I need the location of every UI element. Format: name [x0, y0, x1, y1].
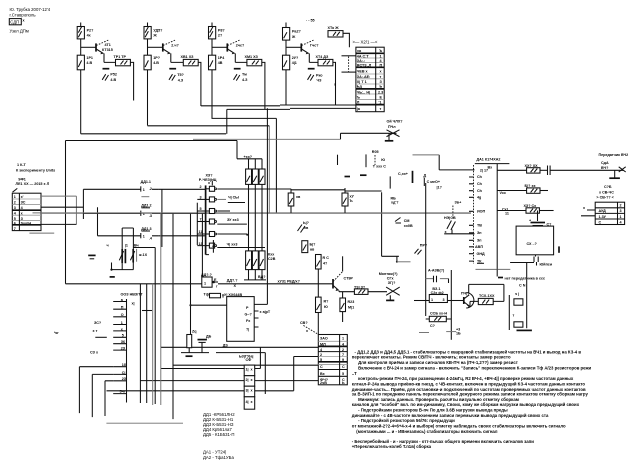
wire: U1 left pin1 [161, 368, 244, 370]
svg-text:1Р?: 1Р? [153, 56, 161, 60]
svg-text:- Подстройками резисторов В-пч: - Подстройками резисторов В-пч По для 3.… [358, 408, 508, 413]
svg-text:11: 11 [199, 230, 203, 234]
wire: base of VT1 [81, 46, 96, 48]
wire: DA2 right pin stubs [254, 304, 267, 327]
svg-text:ЧЗ: ЧЗ [317, 79, 323, 83]
label R near frame corner [391, 196, 400, 204]
svg-text:ТВ: ТВ [477, 224, 482, 228]
wire: long gray vertical x152.7 [152, 284, 154, 405]
svg-text:G~?: G~? [245, 313, 253, 317]
wire: gray line y139.3 to RX antenna [193, 138, 341, 140]
svg-text:2| 17: 2| 17 [480, 168, 488, 172]
svg-text:т: т [380, 75, 382, 79]
component Tf.a near DA2 [204, 292, 226, 298]
wire: base of VT2 [148, 46, 163, 48]
svg-text:1: 1 [143, 235, 145, 239]
svg-text:О: О [121, 313, 124, 317]
gate DD1.3 [135, 227, 159, 241]
title text block top-left [9, 7, 50, 34]
box Cx filter [516, 226, 554, 255]
svg-text:СФ: СФ [246, 358, 253, 362]
wire: thick vertical x451.3 [450, 270, 452, 340]
svg-text:СТ9Р: СТ9Р [344, 277, 354, 281]
wire: R30 stubs [342, 292, 344, 322]
wire: emitter drop cell1 [104, 53, 116, 62]
wire: cell2 vertical rail [147, 23, 149, 126]
wire: X1 shield gray edge [75, 196, 77, 224]
wire: gray vertical x160.8 lower [160, 347, 162, 405]
capacitor C5 slashes cell2 [169, 73, 185, 82]
svg-text:2?: 2? [218, 34, 223, 38]
svg-text:Ж: Ж [152, 34, 157, 38]
resistor R22 slashes [444, 216, 456, 234]
crystal ZQ2 cluster [181, 329, 212, 356]
resistor R25 [525, 184, 549, 193]
wire: DA1 out row2 [497, 190, 526, 192]
notes text block [352, 350, 592, 450]
inductor L4 cell4 [316, 55, 333, 66]
wire: DD2 top pin stub [211, 181, 213, 186]
label R05 group [372, 150, 386, 169]
wire: long middle vertical x267.4 [266, 108, 268, 304]
wire: U1 right pin3 over and up [255, 357, 294, 391]
wire: cell2 bus y125.8 [148, 125, 270, 127]
wire: VT5 collector up [342, 256, 344, 271]
wire: DD3 pin stubs left [113, 302, 126, 394]
wire: emitter drop cell3 [235, 53, 247, 62]
parts list DA1-DA2 [203, 450, 234, 460]
svg-text:МЛ: МЛ [320, 342, 326, 346]
svg-text:9: 9 [342, 358, 344, 362]
svg-text:ВД?: ВД? [258, 275, 266, 279]
resistor R11 [283, 28, 302, 41]
svg-text:ЗС?: ЗС? [94, 321, 102, 325]
inductor L3 cell3 [245, 55, 262, 66]
svg-text:Т5?: Т5? [177, 73, 184, 77]
svg-text:НЭ|СВ: НЭ|СВ [444, 216, 456, 220]
resistor R21 mid right [342, 193, 355, 206]
wire: bus1 y105.6 [201, 104, 356, 107]
svg-text:Зп: Зп [477, 231, 482, 235]
svg-text:6: 6 [14, 221, 16, 225]
svg-text:Ч| хх3: Ч| хх3 [227, 242, 238, 246]
svg-text:Ю: Ю [381, 158, 385, 162]
svg-text:· - 55: · - 55 [306, 19, 315, 23]
gate DD2.6 [197, 242, 216, 255]
wire: right frame vertical x381.6 [381, 192, 383, 256]
svg-text:за В-ЗИП-1 по переднюю панель: за В-ЗИП-1 по переднюю панель переключат… [352, 392, 589, 397]
svg-text:ХМ1 ХЗ: ХМ1 ХЗ [245, 55, 259, 59]
capacitor plate cell4 [308, 68, 315, 70]
wire: DD1.2 out to DD2 [159, 212, 206, 214]
svg-text:- Подстройкой резисторов 56/76: - Подстройкой резисторов 56/76: предыдущ… [358, 418, 455, 423]
diode VD box near X2 [328, 26, 344, 37]
gate DD2.2 [197, 196, 216, 202]
svg-text:контроль-режим ПЧ-24, при разм: контроль-режим ПЧ-24, при размещении 4-2… [358, 376, 574, 381]
svg-text:*кг: *кг [54, 331, 59, 335]
svg-text:ДБ: ДБ [206, 335, 212, 339]
svg-text:ЗАО: ЗАО [320, 337, 328, 341]
capacitor bar x337.5 [337, 155, 339, 165]
svg-text:Ой ЧЛХ?: Ой ЧЛХ? [387, 120, 404, 124]
svg-text:Сh: Сh [477, 182, 483, 186]
svg-text:4|1: 4|1 [292, 61, 297, 65]
wire: x318.3 vertical through TX [317, 269, 319, 297]
antenna WA2 far right [606, 167, 626, 178]
resistor R6 cell2 [144, 55, 161, 70]
svg-text:..Т: ..Т [352, 371, 357, 376]
svg-text:ДД?.?: ДД?.? [201, 273, 213, 277]
svg-text:1б: 1б [122, 363, 127, 367]
svg-text:5: 5 [200, 207, 202, 211]
resistor pack lower R17 [252, 251, 258, 270]
wire: vertical x161.9 [161, 189, 163, 247]
wire: DD1.3 out to DD2 [159, 235, 206, 237]
svg-text:4.В: 4.В [110, 78, 116, 82]
svg-text:ДА1 К174ХА2: ДА1 К174ХА2 [477, 157, 501, 161]
svg-text:С?Б: С?Б [604, 185, 612, 189]
wire: DD2 out1 long [217, 189, 381, 192]
svg-text:2чВ: 2чВ [320, 381, 327, 385]
svg-text:Л: Л [357, 100, 360, 104]
label С меО+ [424, 178, 442, 190]
svg-text:от монтажной-2?2-4=6+4-х-4 и в: от монтажной-2?2-4=6+4-х-4 и выборе| отм… [352, 423, 566, 428]
wire: input to DD1.2 [83, 212, 135, 214]
transistor VT4 [301, 40, 319, 54]
svg-text:2|: 2| [246, 378, 249, 382]
svg-text:переключает контакты. Режим СВ: переключает контакты. Режим СВ/ПЧ - вклю… [352, 355, 511, 360]
svg-text:Ч| СЫ: Ч| СЫ [228, 196, 239, 200]
wire: cell4 vertical rail [285, 23, 287, 105]
svg-text:хх0В: хх0В [404, 224, 413, 228]
svg-text:Т ххх С: Т ххх С [373, 165, 386, 169]
svg-text:ЗУ хх3: ЗУ хх3 [227, 218, 239, 222]
gate DD2.1 [200, 185, 217, 191]
labels +3 1Б [446, 328, 461, 336]
svg-text:.3: .3 [149, 214, 152, 218]
svg-text:2З: 2З [121, 347, 126, 351]
wire: cell3 L out down to bus [262, 62, 265, 109]
wire: vertical link x226.8 [226, 109, 228, 133]
wire: R21 stubs [344, 188, 346, 213]
resistor pack upper R14 [252, 169, 258, 184]
optocoupler U1 cell1 [244, 365, 255, 376]
wire: input to DD1.1 [83, 188, 135, 190]
wire: emitter drop cell2 [171, 53, 184, 62]
wire: vertical x190.5 to DA2 [190, 213, 192, 335]
gate DD2.5 [197, 230, 216, 236]
connector X1 table [12, 193, 41, 231]
gate DD1.2 [135, 204, 159, 218]
wire: corner into DA1 input [439, 155, 474, 170]
svg-text:УД5?: УД5? [153, 28, 163, 32]
wire: DD2 left pin bus [196, 203, 198, 245]
wire: DD3 wrap wire C [105, 381, 113, 416]
wire: long gray line y213 across [33, 212, 472, 214]
wire: table feed y365.2 [173, 364, 318, 366]
svg-text:5: 5 [342, 372, 344, 376]
svg-text:1: 1 [143, 188, 145, 192]
wire: gray bottom of Cx [510, 262, 534, 264]
label ЗВ+ and dashed drop [453, 201, 461, 219]
resistor R3 cell1 [77, 55, 93, 70]
svg-text:Монтаж(?): Монтаж(?) [379, 272, 399, 276]
wire: branch x83.4 down [82, 189, 84, 219]
wire: feeds to resistor pack [249, 159, 263, 169]
wire: cell2 L out down to bus [198, 62, 201, 106]
svg-text:С меО+: С меО+ [427, 180, 441, 184]
wire: DD2 out2 with net label [217, 196, 245, 203]
wire: diode to X2 top [343, 33, 349, 47]
wire: X1 row1 gray out [41, 195, 76, 197]
wire: DD2 out6 with net label [217, 242, 265, 247]
IC DD2 body rail [205, 185, 207, 254]
wire: R24 to cap [540, 169, 547, 171]
svg-text:2: 2 [342, 348, 344, 352]
svg-text:ЛЕ1 ХХ — 2015 х Л: ЛЕ1 ХХ — 2015 х Л [16, 182, 50, 186]
svg-text:|1?: |1? [437, 186, 443, 190]
wire: B3.1 left stub [414, 300, 429, 302]
wire: into DA1 pin row [444, 233, 474, 235]
svg-text:ч |: ч | [515, 292, 519, 296]
svg-text:Ю: Ю [324, 305, 328, 309]
resistor R5 [144, 27, 163, 39]
resistor R19 drop from DD2 out1 [288, 189, 301, 213]
capacitor plate mark b [360, 174, 367, 176]
svg-text:С N: С N [519, 284, 526, 288]
svg-text:Х| Т 1: Х| Т 1 [357, 80, 367, 84]
svg-text:7: 7 [14, 227, 16, 231]
wire: vertical x155.2 [133, 248, 155, 405]
svg-text:1.3У: 1.3У [599, 215, 607, 219]
gate DD2.3 [197, 207, 216, 213]
svg-text:С: С [599, 220, 602, 224]
svg-text:Zq: Zq [192, 329, 197, 333]
gate DD1.1 [135, 180, 159, 197]
wire: DA2 left input [191, 304, 227, 306]
svg-text:С2В: С2В [268, 257, 276, 261]
svg-text:Узел ДПм: Узел ДПм [10, 29, 29, 34]
resistor R8 [209, 27, 226, 39]
svg-text:А-АЗВ(?): А-АЗВ(?) [428, 269, 445, 273]
svg-text:каналов для "особой" вкл. по и: каналов для "особой" вкл. по им-динамику… [352, 402, 580, 407]
svg-text:ЯСТЗ..Л: ЯСТЗ..Л [357, 64, 372, 68]
capacitor C8 slashes cell3 [234, 73, 249, 82]
leader label СВ to table [300, 321, 317, 334]
antenna WA3 transmitter out [379, 272, 400, 300]
wire: U1 left pin3 [107, 390, 245, 392]
note text under DA1 [498, 276, 545, 280]
svg-text:4.В: 4.В [86, 61, 92, 65]
wire: bus3 y118.4 [212, 117, 277, 119]
svg-text:т: т [380, 107, 382, 111]
svg-text:З6: З6 [121, 340, 125, 344]
svg-text:?|: ?| [246, 328, 249, 332]
svg-text:3: 3 [620, 209, 622, 213]
wire: table feed y380.6 [140, 380, 318, 382]
capacitor C with + label [398, 171, 413, 183]
wire: cell1 L out down to bus [130, 62, 133, 100]
svg-text:1Р4: 1Р4 [218, 56, 226, 60]
capacitor C26 polarized [529, 211, 552, 227]
wire: long vertical x140.4 [139, 284, 141, 403]
capacitor C30 [426, 276, 449, 283]
svg-text:4.З: 4.З [242, 78, 248, 82]
wire: X2 pin stub upper [342, 55, 356, 57]
svg-text:КТ315: КТ315 [102, 48, 113, 52]
svg-text:4?: 4? [323, 262, 328, 266]
svg-text:хв: хв [304, 226, 309, 230]
wire: gray drop x269.3 [268, 126, 270, 213]
component ladder right x509-532 [509, 263, 532, 331]
svg-text:ЧЕВ х: ЧЕВ х [357, 70, 369, 74]
svg-text:ПЧл: ПЧл [388, 125, 396, 129]
wire: X1 row5 gray long out [41, 212, 471, 214]
capacitor plate cell3 [234, 68, 241, 70]
wire: pack columns verticals [249, 184, 263, 251]
svg-text:СМ: СМ [404, 219, 410, 223]
wire: gray stub right of junction [397, 261, 411, 263]
svg-text:Ьд: Ьд [357, 85, 363, 89]
svg-text:Гчс?: Гчс? [310, 43, 319, 47]
wire: R29 down into table corner [317, 313, 319, 335]
wire: vertical x202.4 [201, 213, 203, 277]
svg-text:ЗГ|?: ЗГ|? [388, 281, 396, 285]
wire: VT5 emitter node [339, 290, 354, 291]
resistor R12 cell4 [283, 55, 300, 70]
svg-text:хд'?: хд'? [391, 201, 399, 205]
wire: to TX antenna [368, 291, 387, 293]
svg-text:> СВ-?? <: > СВ-?? < [596, 196, 613, 200]
svg-text:х а|рТ: х а|рТ [260, 310, 271, 314]
capacitor bar right of Cx [558, 246, 560, 252]
svg-text:R05: R05 [372, 150, 379, 154]
parts list DD1-DD5 [203, 412, 235, 437]
svg-text:Ж: Ж [291, 35, 296, 39]
resistor R26 [524, 204, 554, 213]
svg-text:К эксперименту Units: К эксперименту Units [16, 168, 55, 172]
svg-text:Сh: Сh [477, 189, 483, 193]
wire: DD2 out5 [217, 233, 247, 235]
wire: base feed VT6 [451, 300, 463, 302]
svg-text:Р52: Р52 [110, 73, 117, 77]
optocoupler U1 cell4 [244, 397, 255, 409]
svg-text:7: 7 [342, 353, 344, 357]
capacitor bar x366 [365, 154, 367, 167]
svg-text:4|: 4| [246, 400, 249, 404]
svg-text:ЗА:.АЕ:: ЗА:.АЕ: [357, 75, 371, 79]
DD3 pin numbers [120, 298, 127, 394]
svg-text:хв: хв [296, 195, 301, 199]
svg-text:Юйпси: Юйпси [540, 262, 553, 266]
svg-text:+Переключатель-колеб Т.п1в| сб: +Переключатель-колеб Т.п1в| сборка [352, 444, 432, 449]
antenna WA1 receiver [341, 120, 404, 141]
wire: DD2 pin13 stub [212, 240, 214, 253]
wire: X1 row3 out [41, 206, 83, 208]
svg-text:ССБ хх-Н: ССБ хх-Н [430, 311, 447, 315]
svg-text:1: 1 [620, 215, 622, 219]
svg-text:ХТ4 ДЗ: ХТ4 ДЗ [316, 55, 329, 59]
wire: main frame bottom bus [66, 283, 202, 285]
varicap VD dashes [298, 221, 310, 233]
resistor R9 cell3 [209, 55, 226, 70]
capacitor below Cx box [534, 255, 553, 266]
svg-text:ТР1 ТР: ТР1 ТР [114, 55, 127, 59]
svg-text:1: 1 [431, 298, 433, 302]
svg-text:Вч: Вч [134, 243, 139, 247]
connector X2/1 table [356, 47, 384, 112]
svg-text:4g: 4g [477, 196, 481, 200]
inductor L1 cell1 [114, 55, 131, 66]
capacitor plate cell1 [103, 68, 110, 70]
wire: to transmitter antenna far right [550, 169, 606, 171]
resistor pack upper R15 [259, 169, 265, 184]
label DD1.5 [227, 279, 239, 288]
wire: dotted link between X2 stubs [348, 57, 350, 72]
svg-text:4В: 4В [218, 61, 223, 65]
svg-text:СВ?: СВ? [300, 321, 308, 325]
filter B3.1 [429, 287, 447, 303]
svg-text:ВЧ?: ВЧ? [601, 166, 609, 170]
crystal ZQ1 cluster [107, 228, 148, 277]
svg-text:Зчг: Зчг [120, 390, 126, 394]
svg-text:Передатчик ВЧ2: Передатчик ВЧ2 [599, 153, 629, 157]
svg-text:х|: х| [132, 302, 135, 306]
svg-text:СХ ..?: СХ ..? [527, 242, 538, 246]
wire: U1 right pin1 up [255, 347, 261, 368]
capacitor plate cell2 [169, 68, 176, 70]
transistor VT6 IF amp [461, 291, 474, 308]
label pack lower [268, 252, 276, 261]
wire: B3.1 right stub [447, 300, 451, 302]
wire: base of VT4 [286, 46, 301, 48]
svg-text:Ь: Ь [380, 85, 383, 89]
svg-text:СЗ х: СЗ х [90, 351, 99, 355]
resistor R29 [316, 297, 330, 312]
resistor pack lower R18 [259, 251, 265, 270]
svg-text:Ь: Ь [342, 381, 345, 385]
svg-text:ав: ав [310, 247, 315, 251]
label ПР with dashes [415, 243, 428, 254]
svg-text:4А С:Т: 4А С:Т [357, 54, 370, 58]
node: junction dot [396, 261, 398, 263]
svg-text:Ь|?: Ь|? [303, 221, 310, 225]
svg-text:ТК: ТК [477, 259, 482, 263]
wire: bus A y133.8 from cell1 [81, 133, 226, 135]
svg-text:1|: 1| [246, 368, 249, 372]
labels left of DD3 [90, 321, 107, 355]
svg-text:Сh: Сh [477, 175, 483, 179]
svg-text:ДS: ДS [223, 344, 229, 348]
svg-text:2.3: 2.3 [378, 90, 383, 94]
svg-text:П: П [121, 306, 124, 310]
svg-text:С: С [342, 365, 345, 369]
svg-text:М|1: М|1 [348, 305, 354, 309]
svg-text:ТСХ-1ХХ: ТСХ-1ХХ [479, 294, 495, 298]
svg-text:1: 1 [121, 321, 123, 325]
optocoupler U1 label [239, 355, 253, 363]
svg-text:хУ31 РЕД/х?: хУ31 РЕД/х? [278, 280, 301, 284]
wire: DD3 wrap wire B [92, 374, 113, 417]
svg-text:3: 3 [14, 206, 16, 210]
svg-text:4Т1: 4Т1 [105, 43, 111, 47]
svg-text:4.В: 4.В [153, 61, 159, 65]
svg-text:СДП: СДП [10, 20, 19, 25]
svg-text:2У?: 2У? [292, 56, 299, 60]
capacitor C2 slashes cell1 [102, 73, 117, 82]
svg-text:Д: Д [424, 174, 427, 178]
wire: drop x390 [389, 176, 391, 188]
